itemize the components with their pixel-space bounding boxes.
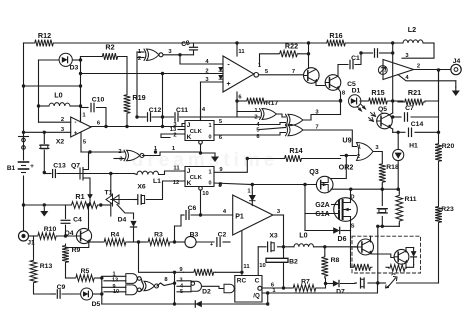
wire U2 output to J4	[414, 64, 451, 70]
op-amp P1	[233, 195, 273, 235]
transistor Q2	[325, 75, 341, 91]
svg-text:R5: R5	[81, 268, 90, 275]
connector X1 pins	[19, 137, 29, 150]
svg-text:R14: R14	[289, 146, 302, 155]
node U9 in2	[345, 154, 348, 157]
svg-text:2: 2	[61, 117, 64, 123]
wire P1 output	[273, 209, 284, 215]
wire C14 run	[393, 131, 439, 133]
wire left rail	[23, 43, 25, 231]
wire C5 cap run	[359, 51, 394, 54]
inductor L0b	[294, 231, 314, 247]
wire FF2 bottom pin10	[199, 187, 209, 216]
node R1 line	[43, 203, 103, 206]
diode D5	[81, 288, 101, 308]
svg-text:Q3: Q3	[309, 167, 319, 176]
wire P1 out to B2	[283, 215, 285, 258]
wire R13 riser	[33, 236, 35, 258]
svg-text:Q7: Q7	[71, 163, 80, 170]
wire P1 feedback net y184	[236, 112, 238, 118]
wire D3 branch	[39, 59, 81, 61]
wire U1 pin6	[237, 92, 242, 101]
node C12 net	[135, 115, 164, 118]
resistor R18	[379, 162, 399, 184]
resistor R7	[291, 279, 318, 292]
resistor R9	[62, 244, 80, 264]
node L0 left	[37, 104, 40, 107]
and gate N1	[126, 274, 141, 284]
wire FF2 out8	[214, 182, 223, 188]
resistor R15	[367, 88, 389, 104]
diode U1 input clamp a	[219, 68, 222, 72]
wire Q1 emitter to Q2 base	[316, 82, 325, 86]
label OR2	[339, 163, 354, 172]
node Q4 base	[64, 234, 67, 237]
transistor Q3 jfet	[309, 167, 333, 193]
node bottom return	[173, 302, 270, 305]
resistor R11	[396, 193, 417, 224]
svg-text:K: K	[187, 180, 192, 187]
wire U1 pin11	[237, 43, 245, 56]
wire N3 output	[157, 277, 175, 286]
wire XOR2 in2	[237, 116, 260, 118]
node mid-left junctions	[79, 58, 82, 107]
svg-text:S: S	[351, 224, 355, 230]
resistor R17	[245, 98, 278, 107]
flip-flop U8 JK	[185, 167, 214, 188]
wire L2 feedback	[402, 43, 434, 59]
wire R1 line	[24, 204, 101, 206]
wire R8 riser	[324, 247, 326, 255]
diode U1 input clamp b	[219, 76, 222, 80]
crystal X2	[40, 132, 65, 172]
or gate U9	[342, 136, 373, 161]
wire T1 bottom to R1 line	[101, 204, 111, 206]
wire R11 top link	[398, 189, 400, 193]
wire Q2A source down	[350, 231, 352, 268]
node L0b right	[323, 245, 326, 248]
svg-text:C11: C11	[176, 107, 188, 114]
svg-text:R22: R22	[285, 42, 298, 51]
capacitor C12	[148, 107, 162, 121]
wire XOR1 input2	[137, 52, 144, 117]
wire G2A lead	[332, 204, 339, 206]
resistor R21	[403, 88, 425, 105]
resistor R20	[435, 142, 454, 163]
svg-text:D5: D5	[92, 301, 101, 308]
wire FF1 pin2	[161, 133, 185, 139]
inductor L1	[134, 171, 165, 185]
node R22 right	[307, 52, 310, 55]
wire P1 pin1 zener	[247, 185, 255, 206]
resistor R16	[325, 31, 347, 46]
resistor R19	[124, 93, 146, 115]
wire y267 line	[351, 265, 414, 268]
svg-text:D1: D1	[352, 88, 361, 95]
svg-text:G2A: G2A	[315, 202, 329, 209]
capacitor C7	[405, 105, 415, 121]
transistor Q4	[64, 228, 91, 243]
wire R7 leads	[284, 278, 326, 288]
wire Q2 emitter	[339, 89, 346, 101]
capacitor C10	[81, 97, 107, 127]
wire Q7 source arrow	[87, 184, 93, 205]
wire C9 D5 run	[51, 293, 102, 295]
wire C6 branch	[175, 215, 185, 242]
node A2 output junctions	[104, 125, 164, 128]
svg-text:J4: J4	[453, 58, 461, 65]
node U1 pin6 junction	[235, 99, 238, 102]
svg-text:B3: B3	[190, 232, 199, 239]
svg-text:C13: C13	[53, 163, 66, 170]
svg-text:10: 10	[259, 263, 265, 269]
svg-text:L0: L0	[54, 91, 62, 100]
node FF2 pin10 net	[199, 213, 202, 216]
node C14 junctions	[397, 131, 441, 134]
svg-text:+: +	[226, 81, 230, 88]
node y189 junctions	[349, 188, 400, 191]
wire x138 drop	[139, 242, 175, 272]
svg-text:0: 0	[208, 181, 211, 187]
diode D1 led	[349, 88, 366, 112]
capacitor C4	[61, 205, 82, 236]
wire X3 line	[258, 246, 283, 248]
wire U1 pin3 to FF1 pin4	[201, 82, 206, 121]
xor gate XOR3a	[256, 114, 303, 128]
svg-text:R18: R18	[386, 164, 399, 171]
wire XOR3b in2	[260, 133, 286, 136]
wire R2 run	[81, 57, 128, 94]
capacitor C14	[409, 121, 424, 137]
resistor R2	[101, 43, 119, 60]
svg-text:2: 2	[417, 64, 420, 70]
svg-text:12: 12	[173, 180, 179, 186]
resistor R8	[321, 255, 339, 278]
svg-text:2: 2	[118, 149, 121, 155]
transistor QB	[394, 249, 409, 264]
transistor Q1	[304, 68, 320, 84]
svg-text:+: +	[30, 163, 34, 170]
connector J1	[19, 231, 35, 247]
wire U2 pin4 feedback	[398, 75, 456, 82]
svg-text:U9: U9	[342, 136, 351, 145]
and gate N4	[177, 278, 202, 296]
resistor R22	[278, 42, 299, 58]
capacitor C8	[181, 40, 198, 55]
wire x378 drop	[377, 226, 379, 283]
wire RC pin11	[242, 231, 250, 276]
wire C12 C11 line	[137, 116, 237, 118]
svg-text:CLK: CLK	[190, 175, 203, 181]
svg-text:2: 2	[173, 133, 176, 139]
wire XOR3a out	[303, 110, 341, 121]
wire U1 pin2 input	[81, 69, 224, 75]
node J4 branch	[437, 68, 440, 71]
svg-text:+: +	[210, 242, 213, 248]
crystal X3	[268, 233, 278, 252]
svg-text:Q4: Q4	[64, 230, 73, 237]
node Q3 gate net	[251, 183, 307, 186]
svg-text:R8: R8	[331, 257, 340, 264]
wire C7 run	[393, 116, 439, 118]
diode D3	[59, 53, 78, 71]
wire top supply rail	[24, 42, 435, 44]
node C13 left	[43, 171, 46, 174]
svg-text:C4: C4	[73, 217, 82, 224]
wire y242 line	[89, 241, 231, 243]
node rail bottom	[100, 276, 103, 295]
resistor R12	[33, 31, 55, 46]
svg-text:R20: R20	[442, 143, 455, 150]
wire U9in2 to Q3	[331, 156, 346, 179]
diode D7	[333, 280, 345, 295]
wire FF1 bottom pin	[199, 141, 203, 155]
wire A2 pin2 input	[39, 117, 71, 123]
node y226	[376, 225, 384, 228]
wire XOR4 in2 stub	[114, 158, 124, 160]
svg-text:R13: R13	[40, 263, 53, 270]
wire XOR3b to U9	[341, 130, 357, 147]
wire right chain vertical	[438, 70, 440, 283]
wire X3 to RC pin10	[258, 247, 266, 276]
wire D6 run	[305, 230, 351, 232]
svg-text:1: 1	[208, 123, 211, 129]
capacitor C6	[186, 205, 197, 219]
resistor R10	[36, 226, 58, 239]
svg-text:2: 2	[357, 154, 360, 160]
resistor Rql	[352, 264, 407, 272]
wire FF1 out6	[214, 135, 260, 141]
op-amp U1 output bubble	[254, 63, 262, 77]
svg-text:10: 10	[202, 191, 208, 197]
lamp H1	[393, 132, 418, 189]
capacitor C9	[57, 284, 66, 298]
svg-text:R3: R3	[154, 232, 163, 239]
wire y226 line	[378, 225, 400, 227]
resistor R4	[102, 232, 128, 246]
svg-text:0: 0	[208, 135, 211, 141]
resistor R1	[69, 192, 100, 208]
xor gate N3	[141, 279, 158, 291]
wire R18 bottom link	[381, 184, 383, 189]
wire XOR1 input1 stub	[81, 57, 145, 58]
diode D6	[333, 227, 346, 243]
svg-text:L0: L0	[299, 231, 307, 240]
svg-text:R2: R2	[105, 43, 114, 52]
svg-text:R9: R9	[72, 247, 81, 254]
wire XOR3a in2	[260, 123, 286, 125]
node A2 pin3 net	[43, 131, 46, 134]
capacitor C2	[210, 232, 227, 249]
svg-text:C2: C2	[218, 232, 227, 239]
transistor Q5 photo	[369, 106, 393, 129]
wire R10 line	[29, 235, 77, 237]
svg-text:L1: L1	[153, 178, 161, 185]
xor gate XOR1	[138, 49, 173, 62]
wire FF1 gnd link	[201, 152, 216, 154]
svg-text:D3: D3	[70, 65, 79, 72]
wire D7 run	[326, 283, 356, 285]
wire A2 pin5	[81, 132, 87, 152]
svg-text:-: -	[75, 120, 77, 126]
and gate N2	[126, 285, 141, 295]
wire R5 run	[66, 277, 102, 279]
svg-text:C: C	[255, 278, 260, 285]
wire Q2 collector to C1	[338, 53, 361, 77]
wire rail-y86	[24, 85, 81, 87]
wire XOR3b out	[303, 125, 341, 131]
crystal X5	[377, 189, 387, 226]
op-amp U1	[223, 56, 254, 92]
svg-text:13: 13	[112, 278, 118, 284]
svg-text:C1: C1	[351, 55, 360, 62]
wire L0a run	[39, 105, 81, 107]
svg-text:D6: D6	[338, 236, 347, 243]
svg-text:B1: B1	[7, 165, 16, 172]
ground J4	[452, 81, 460, 96]
label G2A	[315, 202, 329, 209]
wire x393 vertical	[392, 43, 394, 132]
resistor R6	[192, 269, 216, 276]
wire U1 pin3 input	[201, 77, 224, 83]
svg-text:R23: R23	[441, 206, 454, 213]
svg-text:R17: R17	[266, 100, 279, 107]
svg-text:R11: R11	[404, 196, 416, 203]
svg-text:7: 7	[315, 125, 318, 131]
svg-text:1: 1	[358, 145, 361, 151]
op-amp A2	[71, 117, 91, 137]
wire U9 in2	[341, 155, 357, 157]
capacitor C1	[350, 55, 360, 69]
svg-text:C10: C10	[92, 97, 105, 104]
transistor QA	[358, 239, 374, 255]
resistor R3	[146, 232, 172, 246]
wire U2 top input stub	[392, 52, 394, 54]
node top-rail junctions	[235, 41, 394, 44]
node Q5 collector net	[391, 115, 394, 118]
wire FF1 pin13	[170, 127, 185, 133]
wire XOR4 output	[143, 146, 201, 156]
wire FF1 out5	[214, 119, 260, 125]
wire Q1 collector	[308, 43, 310, 69]
wire R21 left stub	[393, 101, 403, 102]
ground FF1	[211, 153, 219, 162]
wire FF2 pin12	[163, 180, 186, 186]
svg-text:RC: RC	[237, 278, 247, 285]
svg-text:H1: H1	[409, 143, 418, 150]
wire Q3 gate line	[214, 183, 316, 189]
triac T1	[105, 174, 134, 220]
wire D3 to L0 vertical	[38, 60, 40, 122]
crystal X4	[361, 278, 365, 288]
node XOR1 out	[178, 53, 181, 56]
svg-text:D4: D4	[118, 217, 127, 224]
node R14 left	[246, 157, 249, 160]
svg-text:Q5: Q5	[378, 106, 387, 113]
mosfet Q7	[71, 156, 90, 184]
svg-text:/Q: /Q	[253, 293, 260, 300]
wire R6 line	[179, 267, 242, 273]
node y152	[88, 150, 91, 153]
svg-text:+: +	[74, 131, 78, 137]
wire U1 pin6 long vertical	[236, 101, 238, 112]
svg-text:G1A: G1A	[315, 211, 329, 218]
wire Q7 drain to y152	[88, 152, 90, 156]
wire y189 line	[331, 188, 398, 190]
svg-text:X3: X3	[269, 233, 278, 240]
flip-flop U3 JK	[185, 121, 214, 142]
watermark	[132, 150, 279, 171]
node D1 left	[339, 99, 342, 102]
wire Q2A drain	[350, 189, 352, 198]
wire FF2 pin11	[165, 166, 186, 172]
svg-text:K: K	[187, 134, 192, 141]
wire B2 to R7 line	[283, 262, 285, 288]
svg-text:2: 2	[138, 56, 141, 62]
wire R13 bottom	[34, 285, 52, 294]
svg-text:CLK: CLK	[190, 129, 203, 135]
buffer N5	[202, 284, 235, 293]
svg-text:C9: C9	[57, 284, 66, 291]
wire QA base	[354, 246, 358, 248]
mosfet Q2A	[334, 195, 358, 230]
node L1 left	[109, 172, 112, 175]
wire T1 left X6	[111, 199, 134, 201]
wire G1A lead	[305, 213, 339, 215]
wire R22 feedback	[260, 54, 309, 66]
wire R9 bottom	[65, 264, 67, 278]
resistor R5	[74, 268, 96, 281]
wire crossing net x163	[162, 74, 164, 127]
inductor L0	[49, 91, 70, 107]
dashed enclosure	[352, 236, 421, 273]
node B2R7	[282, 286, 285, 289]
resistor R23	[435, 205, 454, 224]
wire G1A net vert	[304, 185, 306, 231]
svg-text:R16: R16	[329, 31, 342, 40]
wire R6 left link	[175, 271, 184, 273]
svg-text:D2: D2	[202, 289, 211, 296]
node RC pin11 net	[240, 271, 243, 274]
capacitor C13	[53, 163, 66, 178]
node x174	[173, 271, 176, 285]
source symbol U2	[378, 66, 387, 75]
svg-text:R4: R4	[111, 232, 120, 239]
wire left rail bottom	[101, 278, 103, 304]
wire y152 line	[81, 151, 124, 153]
svg-text:B2: B2	[289, 259, 298, 266]
node X3 right	[282, 245, 285, 248]
svg-text:J: J	[187, 122, 191, 129]
wire mid-left vertical b	[80, 57, 82, 123]
svg-text:11: 11	[238, 49, 245, 55]
svg-text:X2: X2	[56, 139, 65, 146]
wire Q2A source	[350, 221, 352, 230]
wire QA link QB	[371, 236, 394, 257]
svg-text:7: 7	[292, 69, 295, 75]
wire U9 output	[373, 145, 382, 162]
node D7 tap	[324, 282, 327, 285]
wire x174 vertical	[174, 272, 176, 304]
diode QB clamp	[411, 248, 417, 265]
svg-text:C12: C12	[149, 107, 162, 114]
resistor R13	[30, 258, 52, 285]
label G1A	[315, 211, 329, 218]
wire U1 output to Q1	[259, 69, 304, 75]
wire R19 bottom	[126, 115, 128, 127]
wire L0b run	[284, 246, 358, 248]
svg-text:R10: R10	[44, 226, 57, 233]
